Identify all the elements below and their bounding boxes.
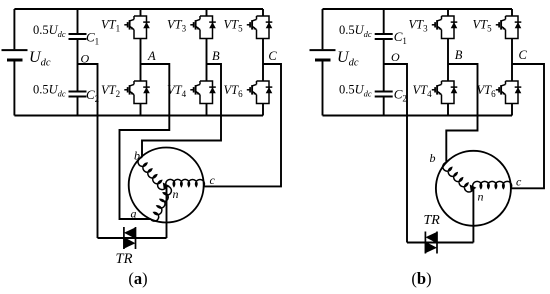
svg-text:VT6: VT6 bbox=[224, 83, 244, 99]
svg-text:(b): (b) bbox=[411, 269, 431, 288]
svg-text:n: n bbox=[173, 187, 179, 201]
svg-text:A: A bbox=[147, 49, 156, 63]
wire bottom DC rail (b) bbox=[323, 115, 513, 117]
svg-text:0.5Udc: 0.5Udc bbox=[339, 83, 372, 99]
svg-text:Udc: Udc bbox=[337, 49, 359, 68]
svg-text:b: b bbox=[430, 151, 436, 165]
wire neutral lead (a) bbox=[166, 186, 168, 238]
wire phase C to motor c (a) bbox=[204, 64, 281, 186]
wire capacitor branch (b) bbox=[383, 9, 385, 116]
svg-text:C1: C1 bbox=[86, 30, 99, 47]
thyristor pair TR (b) bbox=[425, 232, 437, 254]
winding b (a) bbox=[138, 157, 167, 189]
wire leg mid (a) bbox=[206, 39, 208, 82]
svg-text:B: B bbox=[212, 49, 220, 63]
capacitor C2 (b) bbox=[375, 92, 393, 97]
motor stator circle (b) bbox=[436, 151, 511, 226]
transistor VT4 bbox=[190, 81, 216, 104]
wire leg bottom connector (b) bbox=[447, 104, 449, 116]
svg-text:(a): (a) bbox=[128, 269, 147, 288]
svg-text:a: a bbox=[131, 207, 137, 221]
svg-text:VT3: VT3 bbox=[409, 18, 429, 34]
svg-text:VT5: VT5 bbox=[224, 18, 244, 34]
svg-text:O: O bbox=[391, 50, 400, 64]
wire TR branch (a) bbox=[98, 237, 167, 239]
wire neutral lead (b) bbox=[472, 188, 474, 242]
svg-text:0.5Udc: 0.5Udc bbox=[33, 23, 66, 39]
svg-text:TR: TR bbox=[424, 213, 441, 228]
svg-text:c: c bbox=[210, 173, 216, 187]
node n junction mark (a) bbox=[163, 183, 170, 190]
svg-text:C2: C2 bbox=[394, 87, 407, 104]
svg-text:VT4: VT4 bbox=[413, 83, 433, 99]
wire phase B to motor b (b) bbox=[446, 64, 477, 162]
capacitor C1 (b) bbox=[375, 34, 393, 39]
wire capacitor branch (a) bbox=[77, 9, 79, 116]
capacitor C1 (a) bbox=[69, 34, 87, 39]
svg-text:c: c bbox=[516, 175, 522, 189]
wire left DC link vertical (a) bbox=[13, 9, 15, 116]
winding a (a) bbox=[151, 186, 172, 221]
svg-text:0.5Udc: 0.5Udc bbox=[33, 83, 66, 99]
wire phase B to motor b (a) bbox=[142, 64, 221, 157]
transistor VT3 bbox=[432, 16, 458, 39]
wire leg top connector (a) bbox=[206, 9, 208, 16]
capacitor C2 (a) bbox=[69, 92, 87, 97]
svg-text:VT2: VT2 bbox=[101, 83, 120, 99]
battery U_dc (a) bbox=[2, 50, 28, 60]
transistor VT6 bbox=[496, 81, 522, 104]
wire leg bottom connector (b) bbox=[511, 104, 513, 116]
wire node O to TR (b) bbox=[384, 64, 407, 243]
svg-text:VT3: VT3 bbox=[167, 18, 187, 34]
svg-text:b: b bbox=[134, 149, 140, 163]
wire leg mid (a) bbox=[140, 39, 142, 82]
transistor VT6 bbox=[247, 81, 272, 104]
transistor VT1 bbox=[124, 16, 150, 39]
transistor VT2 bbox=[124, 81, 150, 104]
svg-text:n: n bbox=[478, 190, 484, 204]
wire node O to TR (a) bbox=[78, 64, 98, 238]
wire leg top connector (b) bbox=[511, 9, 513, 16]
wire leg bottom connector (a) bbox=[262, 104, 264, 116]
wire phase A to motor a bbox=[120, 64, 170, 219]
wire leg bottom connector (a) bbox=[140, 104, 142, 116]
svg-text:B: B bbox=[455, 48, 463, 62]
transistor VT5 bbox=[247, 16, 272, 39]
wire left DC link vertical (b) bbox=[322, 9, 324, 116]
svg-text:VT6: VT6 bbox=[477, 83, 497, 99]
transistor VT4 bbox=[432, 81, 458, 104]
svg-text:C1: C1 bbox=[394, 29, 407, 46]
svg-text:VT1: VT1 bbox=[101, 18, 120, 34]
motor stator circle (a) bbox=[129, 148, 204, 223]
wire leg mid (a) bbox=[262, 39, 264, 82]
winding c (a) bbox=[166, 179, 205, 186]
wire leg mid (b) bbox=[511, 39, 513, 82]
wire phase C to motor c (b) bbox=[511, 64, 544, 188]
svg-text:0.5Udc: 0.5Udc bbox=[339, 23, 372, 39]
transistor VT5 bbox=[496, 16, 522, 39]
winding c (b) bbox=[473, 181, 512, 188]
svg-text:C: C bbox=[268, 49, 277, 63]
wire top DC rail (a) bbox=[14, 8, 263, 10]
svg-text:VT5: VT5 bbox=[473, 18, 493, 34]
wire leg bottom connector (a) bbox=[206, 104, 208, 116]
svg-text:C: C bbox=[519, 48, 528, 62]
wire top DC rail (b) bbox=[323, 8, 513, 10]
thyristor pair TR (a) bbox=[124, 227, 136, 249]
node n junction mark (b) bbox=[470, 185, 477, 192]
svg-text:Udc: Udc bbox=[29, 49, 51, 68]
wire leg top connector (a) bbox=[140, 9, 142, 16]
battery U_dc (b) bbox=[310, 50, 336, 60]
wire leg mid (b) bbox=[447, 39, 449, 82]
transistor VT3 bbox=[190, 16, 216, 39]
wire bottom DC rail (a) bbox=[14, 115, 263, 117]
wire TR branch (b) bbox=[407, 242, 473, 244]
svg-text:TR: TR bbox=[116, 251, 133, 267]
winding b (b) bbox=[443, 162, 474, 192]
wire leg top connector (a) bbox=[262, 9, 264, 16]
wire leg top connector (b) bbox=[447, 9, 449, 16]
